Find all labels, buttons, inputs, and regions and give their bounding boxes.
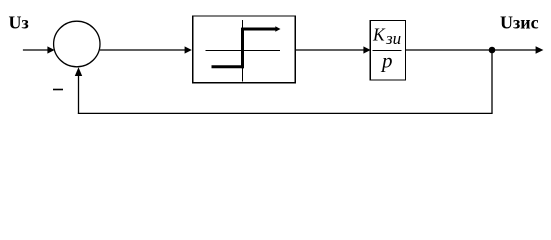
- svg-text:Uзис: Uзис: [500, 13, 539, 33]
- relay horizontal axis: [205, 50, 280, 52]
- svg-text:p: p: [380, 49, 393, 73]
- wire summer to relay block: [100, 49, 186, 51]
- arrowhead into summer bottom: [75, 67, 82, 76]
- feedback wire down from node: [491, 50, 493, 113]
- wire input to summer: [23, 49, 49, 51]
- relay nonlinearity block: [193, 16, 295, 83]
- svg-text:зи: зи: [385, 29, 401, 48]
- wire relay to integrator: [295, 49, 365, 51]
- relay characteristic lower level: [212, 65, 245, 68]
- summing junction: [54, 21, 100, 67]
- relay characteristic vertical jump: [241, 28, 244, 69]
- node junction dot: [489, 47, 496, 54]
- output arrowhead: [536, 46, 544, 53]
- feedback wire bottom run: [78, 112, 493, 114]
- svg-text:Uз: Uз: [9, 13, 29, 33]
- fraction bar: [373, 50, 402, 52]
- svg-text:К: К: [372, 24, 386, 44]
- feedback wire up to summer: [78, 73, 80, 114]
- wire integrator to node: [406, 49, 493, 51]
- integrator block Kзи/p: [370, 21, 405, 81]
- relay characteristic upper level: [243, 28, 277, 31]
- arrowhead into relay block: [185, 46, 192, 53]
- arrowhead into integrator: [363, 46, 370, 53]
- arrowhead into summer: [47, 46, 54, 53]
- output wire: [492, 49, 537, 51]
- minus sign at summer: [53, 89, 63, 91]
- relay characteristic arrow tip: [275, 26, 280, 31]
- relay vertical axis: [242, 20, 244, 82]
